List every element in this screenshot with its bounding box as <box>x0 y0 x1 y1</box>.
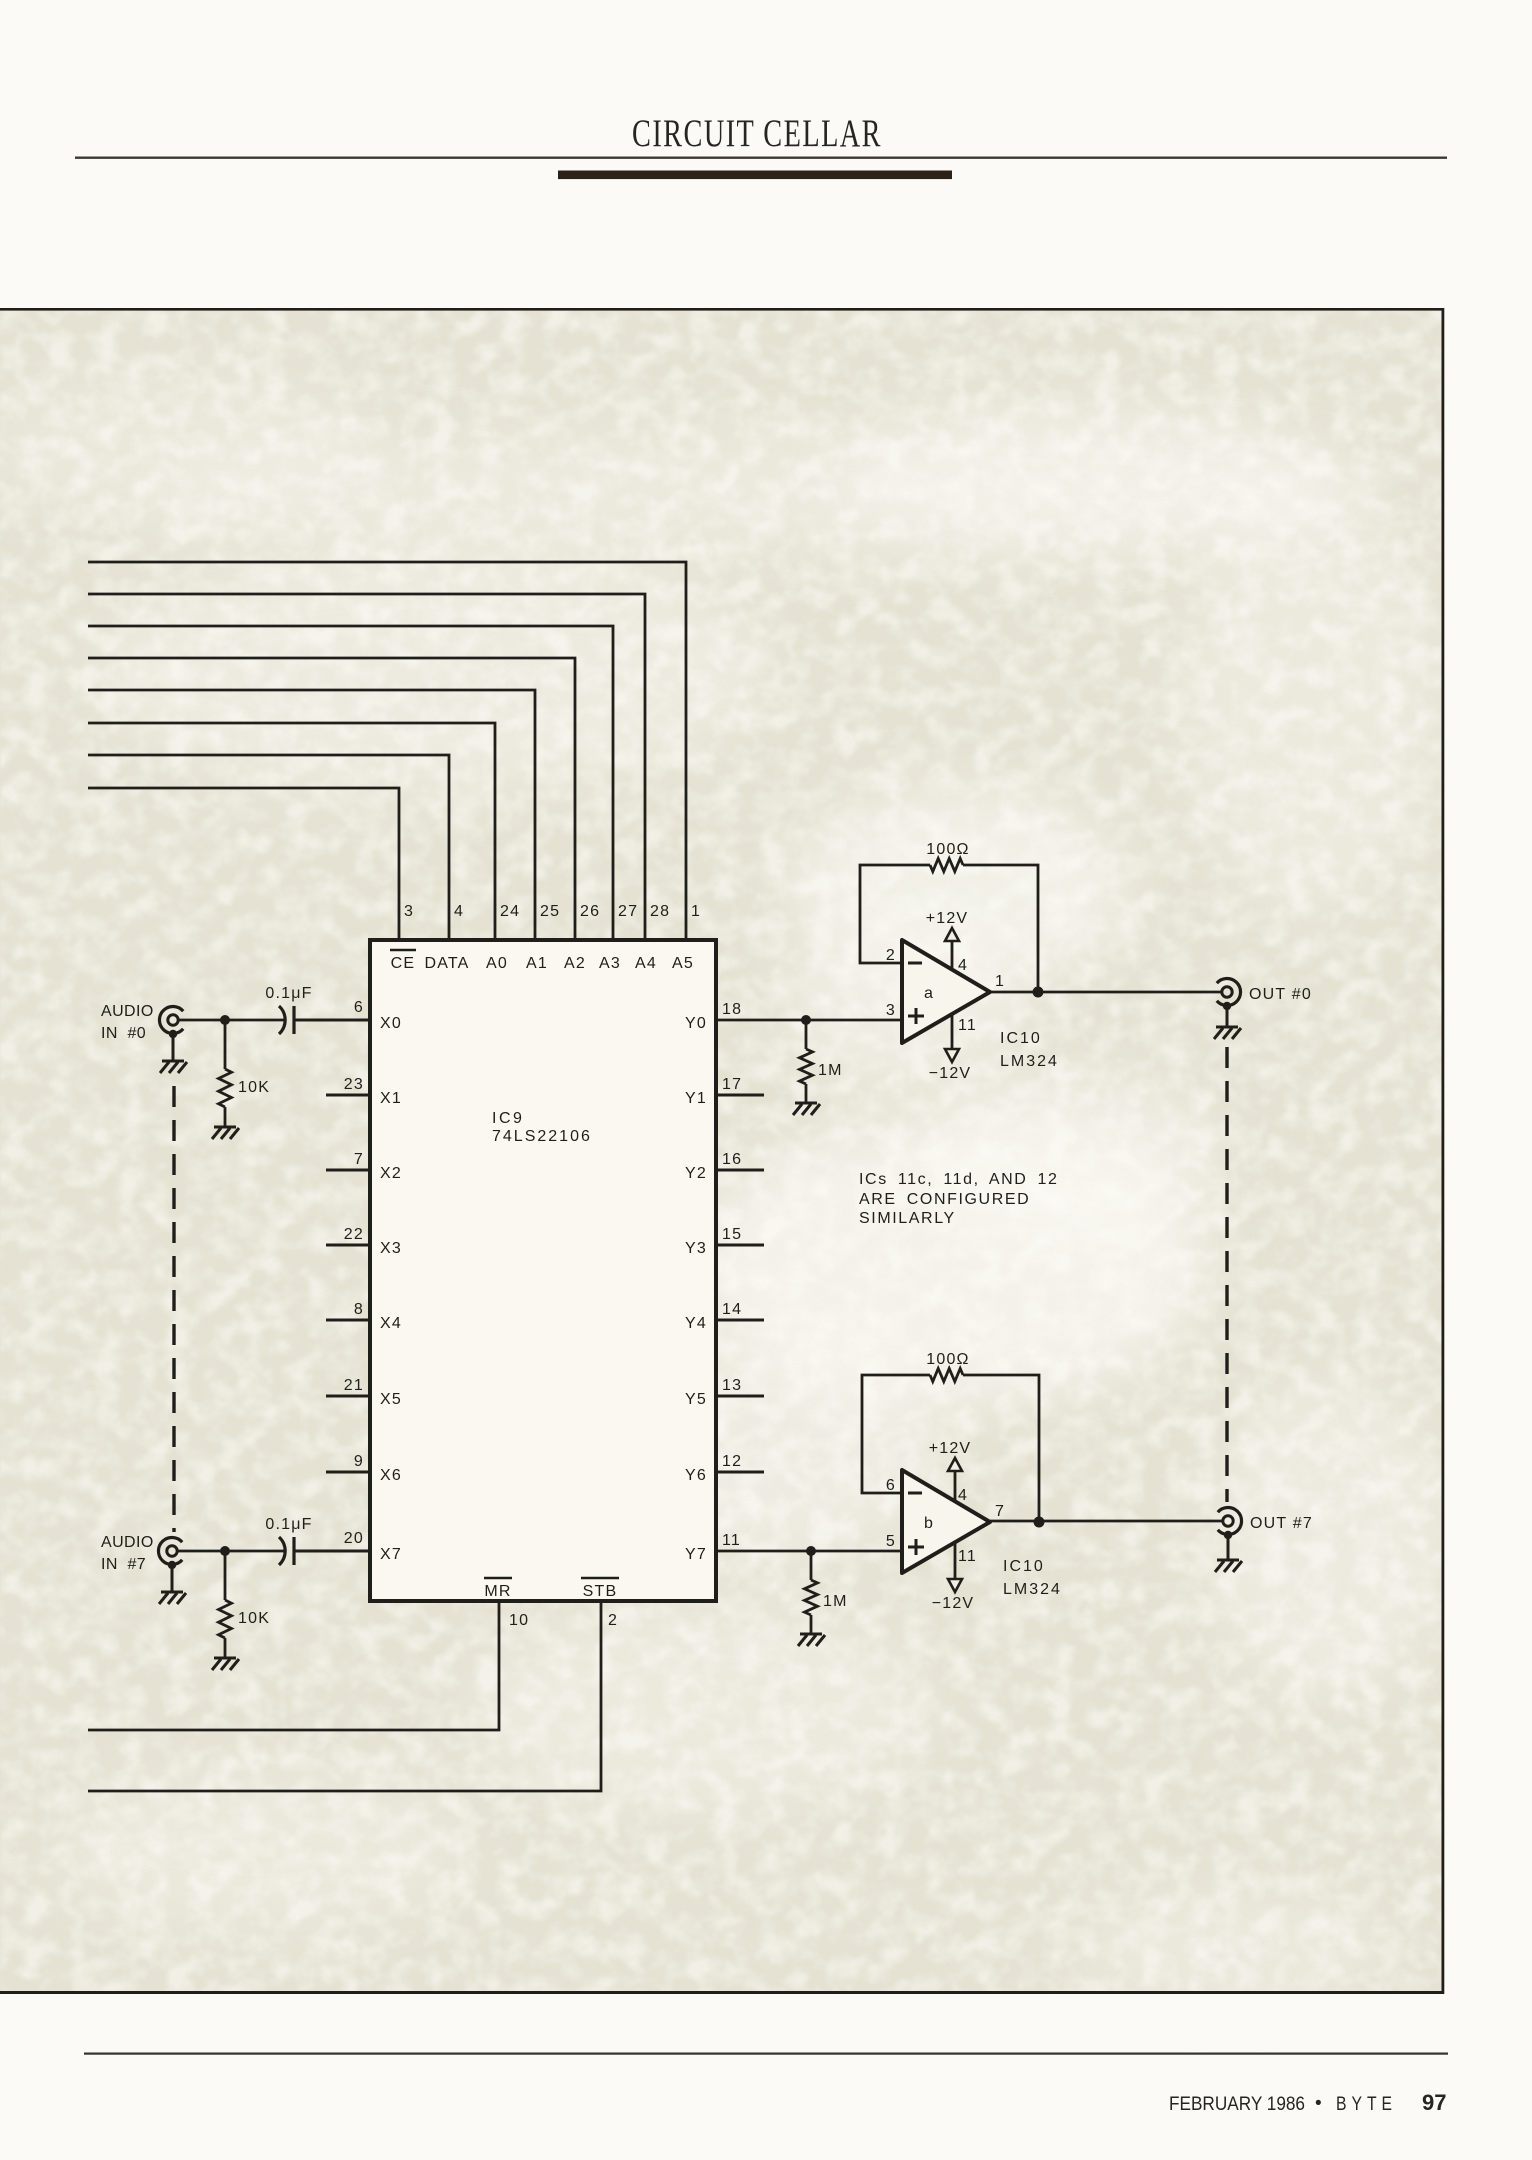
svg-text:4: 4 <box>958 1487 968 1504</box>
wire A0 bus to pin 24 <box>88 723 495 940</box>
pin 14 stub wire (Y4) <box>716 1301 764 1320</box>
svg-text:X4: X4 <box>380 1315 402 1332</box>
svg-text:STB: STB <box>583 1583 618 1600</box>
pin 17 stub wire (Y1) <box>716 1076 764 1095</box>
svg-text:1M: 1M <box>823 1593 848 1610</box>
IC IC9 74LS22106 body <box>370 940 716 1601</box>
svg-text:4: 4 <box>454 903 464 920</box>
svg-text:•: • <box>1315 2093 1322 2114</box>
pin 21 stub wire (X5) <box>326 1377 370 1396</box>
svg-text:6: 6 <box>886 1477 896 1494</box>
svg-text:OUT #0: OUT #0 <box>1249 986 1312 1003</box>
pin 9 stub wire (X6) <box>326 1453 370 1472</box>
pin label Y5 <box>685 1391 707 1408</box>
pin label A4 <box>635 955 657 972</box>
svg-text:18: 18 <box>722 1001 742 1018</box>
wire Y0 (pin 18) to op-amp a + input <box>716 1001 902 1020</box>
node Y7 junction <box>806 1546 816 1556</box>
svg-text:1M: 1M <box>818 1062 843 1079</box>
pin 27 number label (A3) <box>618 903 638 920</box>
pin label X2 <box>380 1165 402 1182</box>
pin label X5 <box>380 1391 402 1408</box>
node output junction (op-amp b) <box>1034 1517 1045 1528</box>
svg-text:3: 3 <box>886 1002 896 1019</box>
connector AUDIO IN #7 (BNC) <box>101 1534 182 1573</box>
pin 16 stub wire (Y2) <box>716 1151 764 1170</box>
svg-text:A2: A2 <box>564 955 586 972</box>
svg-text:Y6: Y6 <box>685 1467 707 1484</box>
svg-text:Y5: Y5 <box>685 1391 707 1408</box>
wire MR pin 10 <box>88 1601 529 1730</box>
svg-text:20: 20 <box>344 1530 364 1547</box>
pin label Y1 <box>685 1090 707 1107</box>
ground (10K ch 0) <box>212 1127 239 1139</box>
svg-text:X3: X3 <box>380 1240 402 1257</box>
wire AUDIO IN #7 to coupling capacitor <box>178 1550 286 1553</box>
svg-text:LM324: LM324 <box>1000 1053 1059 1070</box>
pin 22 stub wire (X3) <box>326 1226 370 1245</box>
svg-text:5: 5 <box>886 1533 896 1550</box>
svg-text:X1: X1 <box>380 1090 402 1107</box>
connector AUDIO IN #0 (BNC) <box>101 1003 183 1042</box>
svg-text:X5: X5 <box>380 1391 402 1408</box>
wire Y7 (pin 11) to op-amp b + input <box>716 1532 902 1551</box>
wire A5 bus to pin 1 <box>88 562 686 940</box>
svg-text:6: 6 <box>354 999 364 1016</box>
wire A4 bus to pin 28 <box>88 594 645 940</box>
wire capacitor to pin 20 (X7) <box>294 1530 370 1551</box>
op-amp IC10b LM324 <box>886 1470 1062 1598</box>
svg-text:26: 26 <box>580 903 600 920</box>
svg-text:X6: X6 <box>380 1467 402 1484</box>
svg-text:AUDIO: AUDIO <box>101 1534 154 1551</box>
svg-text:27: 27 <box>618 903 638 920</box>
svg-text:14: 14 <box>722 1301 742 1318</box>
pin label Y6 <box>685 1467 707 1484</box>
svg-text:8: 8 <box>354 1301 364 1318</box>
wire op-amp a output to OUT #0 <box>990 991 1221 994</box>
svg-text:IC10: IC10 <box>1003 1558 1045 1575</box>
-12V supply (op-amp a) <box>929 1014 972 1082</box>
svg-text:+12V: +12V <box>926 910 969 927</box>
svg-text:74LS22106: 74LS22106 <box>492 1128 592 1145</box>
svg-text:22: 22 <box>344 1226 364 1243</box>
wire op-amp b output to OUT #7 <box>990 1520 1222 1523</box>
svg-text:SIMILARLY: SIMILARLY <box>859 1210 956 1227</box>
wire A2 bus to pin 26 <box>88 658 575 940</box>
svg-text:100Ω: 100Ω <box>926 841 969 858</box>
dashed continuation line (input channels 1-6) <box>172 1086 175 1532</box>
resistor 100 ohm feedback (op-amp b) <box>862 1351 1039 1522</box>
node input junction #7 <box>220 1546 230 1556</box>
pin 8 stub wire (X4) <box>326 1301 370 1320</box>
pin 28 number label (A4) <box>650 903 670 920</box>
svg-text:ICs 11c, 11d, AND 12: ICs 11c, 11d, AND 12 <box>859 1171 1058 1188</box>
+12V supply (op-amp a) <box>926 910 969 969</box>
svg-text:9: 9 <box>354 1453 364 1470</box>
svg-text:Y3: Y3 <box>685 1240 707 1257</box>
connector OUT #7 (BNC) <box>1218 1508 1313 1535</box>
pin 15 stub wire (Y3) <box>716 1226 764 1245</box>
svg-text:15: 15 <box>722 1226 742 1243</box>
pin label X1 <box>380 1090 402 1107</box>
node output junction (op-amp a) <box>1033 987 1044 998</box>
pin label X4 <box>380 1315 402 1332</box>
svg-text:a: a <box>924 985 934 1002</box>
pin label MR (master reset) <box>484 1578 512 1600</box>
svg-text:IN #7: IN #7 <box>101 1556 146 1573</box>
pin label X6 <box>380 1467 402 1484</box>
svg-text:BYTE: BYTE <box>1336 2094 1397 2115</box>
svg-text:11: 11 <box>958 1548 977 1565</box>
pin 3 number label (CE) <box>404 903 414 920</box>
pin label X0 <box>380 1015 402 1032</box>
pin 23 stub wire (X1) <box>326 1076 370 1095</box>
pin label X3 <box>380 1240 402 1257</box>
pin label X7 <box>380 1546 402 1563</box>
ground (AUDIO IN #7 shell) <box>159 1561 186 1604</box>
svg-text:97: 97 <box>1422 2090 1446 2115</box>
svg-text:A4: A4 <box>635 955 657 972</box>
ground (OUT #7 shell) <box>1215 1531 1242 1572</box>
pin label Y2 <box>685 1165 707 1182</box>
svg-text:11: 11 <box>958 1017 977 1034</box>
svg-text:CE: CE <box>391 955 416 972</box>
capacitor 0.1uF (ch 0) <box>265 985 312 1034</box>
svg-text:4: 4 <box>958 957 968 974</box>
svg-text:CIRCUIT CELLAR: CIRCUIT CELLAR <box>632 112 882 155</box>
pin 25 number label (A1) <box>540 903 560 920</box>
svg-text:−12V: −12V <box>932 1595 975 1612</box>
pin label A5 <box>672 955 694 972</box>
-12V supply (op-amp b) <box>932 1542 975 1612</box>
pin 24 number label (A0) <box>500 903 520 920</box>
svg-text:1: 1 <box>995 973 1005 990</box>
svg-text:b: b <box>924 1515 934 1532</box>
ground (1M ch 0) <box>793 1103 820 1115</box>
svg-text:A3: A3 <box>599 955 621 972</box>
svg-text:OUT #7: OUT #7 <box>1250 1515 1313 1532</box>
pin 12 stub wire (Y6) <box>716 1453 764 1472</box>
svg-text:A0: A0 <box>486 955 508 972</box>
svg-text:LM324: LM324 <box>1003 1581 1062 1598</box>
pin label Y4 <box>685 1315 707 1332</box>
svg-text:X2: X2 <box>380 1165 402 1182</box>
resistor 1M (ch 7) <box>805 1551 848 1633</box>
resistor 10K (ch 7) <box>219 1551 271 1657</box>
svg-text:10: 10 <box>509 1612 529 1629</box>
svg-text:A5: A5 <box>672 955 694 972</box>
wire CE bus to pin 3 <box>88 788 399 940</box>
svg-text:IN #0: IN #0 <box>101 1025 146 1042</box>
svg-text:Y4: Y4 <box>685 1315 707 1332</box>
svg-text:Y0: Y0 <box>685 1015 707 1032</box>
svg-text:7: 7 <box>995 1503 1005 1520</box>
pin 1 number label (A5) <box>691 903 701 920</box>
svg-text:100Ω: 100Ω <box>926 1351 969 1368</box>
wire STB pin 2 <box>88 1601 618 1791</box>
pin 7 stub wire (X2) <box>326 1151 370 1170</box>
svg-text:−12V: −12V <box>929 1065 972 1082</box>
pin label STB (strobe) <box>581 1578 619 1600</box>
svg-text:FEBRUARY 1986: FEBRUARY 1986 <box>1169 2094 1305 2115</box>
node input junction #0 <box>220 1015 230 1025</box>
wire A1 bus to pin 25 <box>88 690 535 940</box>
pin label Y0 <box>685 1015 707 1032</box>
svg-text:16: 16 <box>722 1151 742 1168</box>
svg-text:25: 25 <box>540 903 560 920</box>
svg-text:3: 3 <box>404 903 414 920</box>
svg-text:10K: 10K <box>238 1079 270 1096</box>
resistor 10K (ch 0) <box>219 1020 271 1126</box>
resistor 100 ohm feedback (op-amp a) <box>860 841 1038 992</box>
svg-text:1: 1 <box>691 903 701 920</box>
svg-text:12: 12 <box>722 1453 742 1470</box>
svg-text:24: 24 <box>500 903 520 920</box>
pin label CE <box>390 950 416 972</box>
svg-text:Y1: Y1 <box>685 1090 707 1107</box>
svg-text:21: 21 <box>344 1377 364 1394</box>
wire A3 bus to pin 27 <box>88 626 613 940</box>
svg-text:Y2: Y2 <box>685 1165 707 1182</box>
svg-text:DATA: DATA <box>424 955 469 972</box>
svg-text:IC10: IC10 <box>1000 1030 1042 1047</box>
ground (1M ch 7) <box>798 1634 825 1646</box>
pin 26 number label (A2) <box>580 903 600 920</box>
svg-text:2: 2 <box>886 947 896 964</box>
resistor 1M (ch 0) <box>800 1020 843 1102</box>
connector OUT #0 (BNC) <box>1217 978 1312 1005</box>
svg-text:Y7: Y7 <box>685 1546 707 1563</box>
svg-text:0.1μF: 0.1μF <box>265 985 312 1002</box>
svg-text:7: 7 <box>354 1151 364 1168</box>
svg-text:11: 11 <box>722 1532 741 1549</box>
node Y0 junction <box>801 1015 811 1025</box>
svg-text:2: 2 <box>608 1612 618 1629</box>
capacitor 0.1uF (ch 7) <box>265 1516 312 1565</box>
wire capacitor to pin 6 (X0) <box>294 999 370 1020</box>
svg-text:MR: MR <box>484 1583 511 1600</box>
svg-text:23: 23 <box>344 1076 364 1093</box>
pin label A2 <box>564 955 586 972</box>
svg-text:X0: X0 <box>380 1015 402 1032</box>
pin 4 number label (DATA) <box>454 903 464 920</box>
wire AUDIO IN #0 to coupling capacitor <box>179 1019 286 1022</box>
svg-text:10K: 10K <box>238 1610 270 1627</box>
svg-text:13: 13 <box>722 1377 742 1394</box>
pin label A0 <box>486 955 508 972</box>
svg-text:AUDIO: AUDIO <box>101 1003 154 1020</box>
pin label A3 <box>599 955 621 972</box>
svg-text:28: 28 <box>650 903 670 920</box>
svg-text:X7: X7 <box>380 1546 402 1563</box>
svg-text:17: 17 <box>722 1076 742 1093</box>
ground (AUDIO IN #0 shell) <box>160 1030 187 1073</box>
ground (10K ch 7) <box>212 1658 239 1670</box>
svg-text:0.1μF: 0.1μF <box>265 1516 312 1533</box>
svg-text:ARE CONFIGURED: ARE CONFIGURED <box>859 1191 1030 1208</box>
svg-text:+12V: +12V <box>929 1440 972 1457</box>
wire DATA bus to pin 4 <box>88 755 449 940</box>
ground (OUT #0 shell) <box>1214 1002 1241 1039</box>
dashed continuation line (output channels 1-6) <box>1225 1047 1228 1502</box>
note: ICs 11c, 11d and 12 configured similarly <box>859 1171 1058 1227</box>
pin label A1 <box>526 955 548 972</box>
op-amp IC10a LM324 <box>886 940 1059 1070</box>
pin label Y7 <box>685 1546 707 1563</box>
+12V supply (op-amp b) <box>929 1440 972 1501</box>
pin label Y3 <box>685 1240 707 1257</box>
pin 13 stub wire (Y5) <box>716 1377 764 1396</box>
svg-text:IC9: IC9 <box>492 1110 524 1127</box>
pin label DATA <box>424 955 469 972</box>
svg-text:A1: A1 <box>526 955 548 972</box>
